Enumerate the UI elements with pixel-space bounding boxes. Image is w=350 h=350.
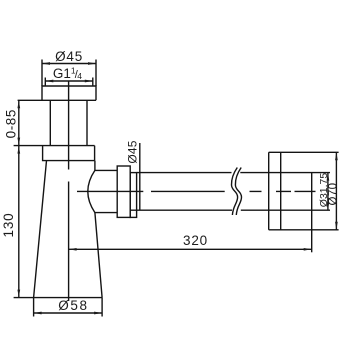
arrow Ø70 top (335, 152, 338, 160)
pipe top edge (right of break) (240, 172, 330, 174)
threaded tube left wall (49, 100, 51, 145)
Ø45 small extension line (139, 143, 141, 210)
arrow Ø70 bottom (335, 222, 338, 230)
dimension line G1 1/4 (45, 80, 93, 82)
dimension line Ø45 top (42, 63, 96, 65)
top flange rectangle (42, 86, 96, 100)
dimension line Ø70 (335, 152, 337, 230)
wall flange right face (280, 152, 282, 230)
lower flange body (43, 146, 95, 161)
wall flange left face (268, 152, 270, 230)
svg-text:Ø45: Ø45 (55, 49, 83, 64)
arrow 130 bottom (17, 290, 20, 298)
dimension line Ø31.75 (327, 173, 329, 211)
arrow Ø45 top right (88, 62, 96, 65)
extension line Ø45 left (41, 60, 43, 87)
vertical centerline of trap (68, 81, 70, 301)
outlet stub bottom edge (95, 212, 117, 214)
wall flange top edge with Ø70 extension (269, 151, 339, 153)
arrow Ø58 right (94, 312, 102, 315)
extension line Ø45 right (95, 60, 97, 87)
dimension line 320 (69, 248, 312, 250)
arrow 130 top (17, 146, 20, 154)
Ø58 extension line left (33, 298, 35, 317)
svg-text:Ø58: Ø58 (58, 298, 88, 313)
arrow 0-85 top (17, 100, 20, 108)
top flange bottom edge with 0-85 extension (18, 99, 96, 101)
svg-text:320: 320 (183, 233, 208, 248)
pipe end cap and 320 extension line (311, 173, 313, 253)
threaded tube right wall (86, 100, 88, 145)
collar rectangle (130, 173, 136, 218)
nut rectangle (117, 166, 130, 217)
cone bottom edge with 130 extension (14, 297, 103, 299)
arrow Ø31.75 top (327, 173, 330, 181)
wall flange bottom edge with Ø70 extension (269, 229, 339, 231)
horizontal pipe centerline (77, 190, 316, 192)
svg-text:G11/4: G11/4 (53, 66, 82, 82)
arrow Ø58 left (34, 312, 42, 315)
arrow 0-85 bottom (17, 138, 20, 146)
arrow Ø31.75 bottom (327, 202, 330, 210)
pipe top edge (left of break) (137, 172, 232, 174)
dimension line 130 (18, 146, 20, 298)
pipe bottom edge (left of break) (130, 209, 232, 211)
outlet stub top edge (95, 169, 117, 171)
svg-text:Ø45: Ø45 (126, 140, 140, 163)
extension tick G1 1/4 left (44, 78, 46, 87)
arrow G1 1/4 left (45, 80, 53, 83)
svg-text:0-85: 0-85 (3, 109, 18, 138)
arrow G1 1/4 right (85, 80, 93, 83)
arrow 320 right (304, 248, 312, 251)
lower flange top edge with extension to left (14, 145, 95, 147)
svg-text:130: 130 (1, 213, 16, 238)
extension tick G1 1/4 right (92, 78, 94, 87)
Ø58 extension line right (101, 298, 103, 317)
pipe bottom edge (right of break) (241, 209, 330, 211)
cone body right edge (95, 213, 102, 298)
arrow 320 left (69, 248, 77, 251)
svg-text:Ø70: Ø70 (327, 183, 339, 206)
dimension line 0-85 (18, 100, 20, 145)
cone body left edge (34, 161, 47, 298)
dimension line Ø58 (34, 312, 103, 314)
pipe break squiggle right (235, 168, 241, 216)
arrow Ø45 top left (42, 62, 50, 65)
pipe break squiggle left (231, 168, 237, 216)
ball joint arc (cone right profile) (88, 161, 95, 213)
